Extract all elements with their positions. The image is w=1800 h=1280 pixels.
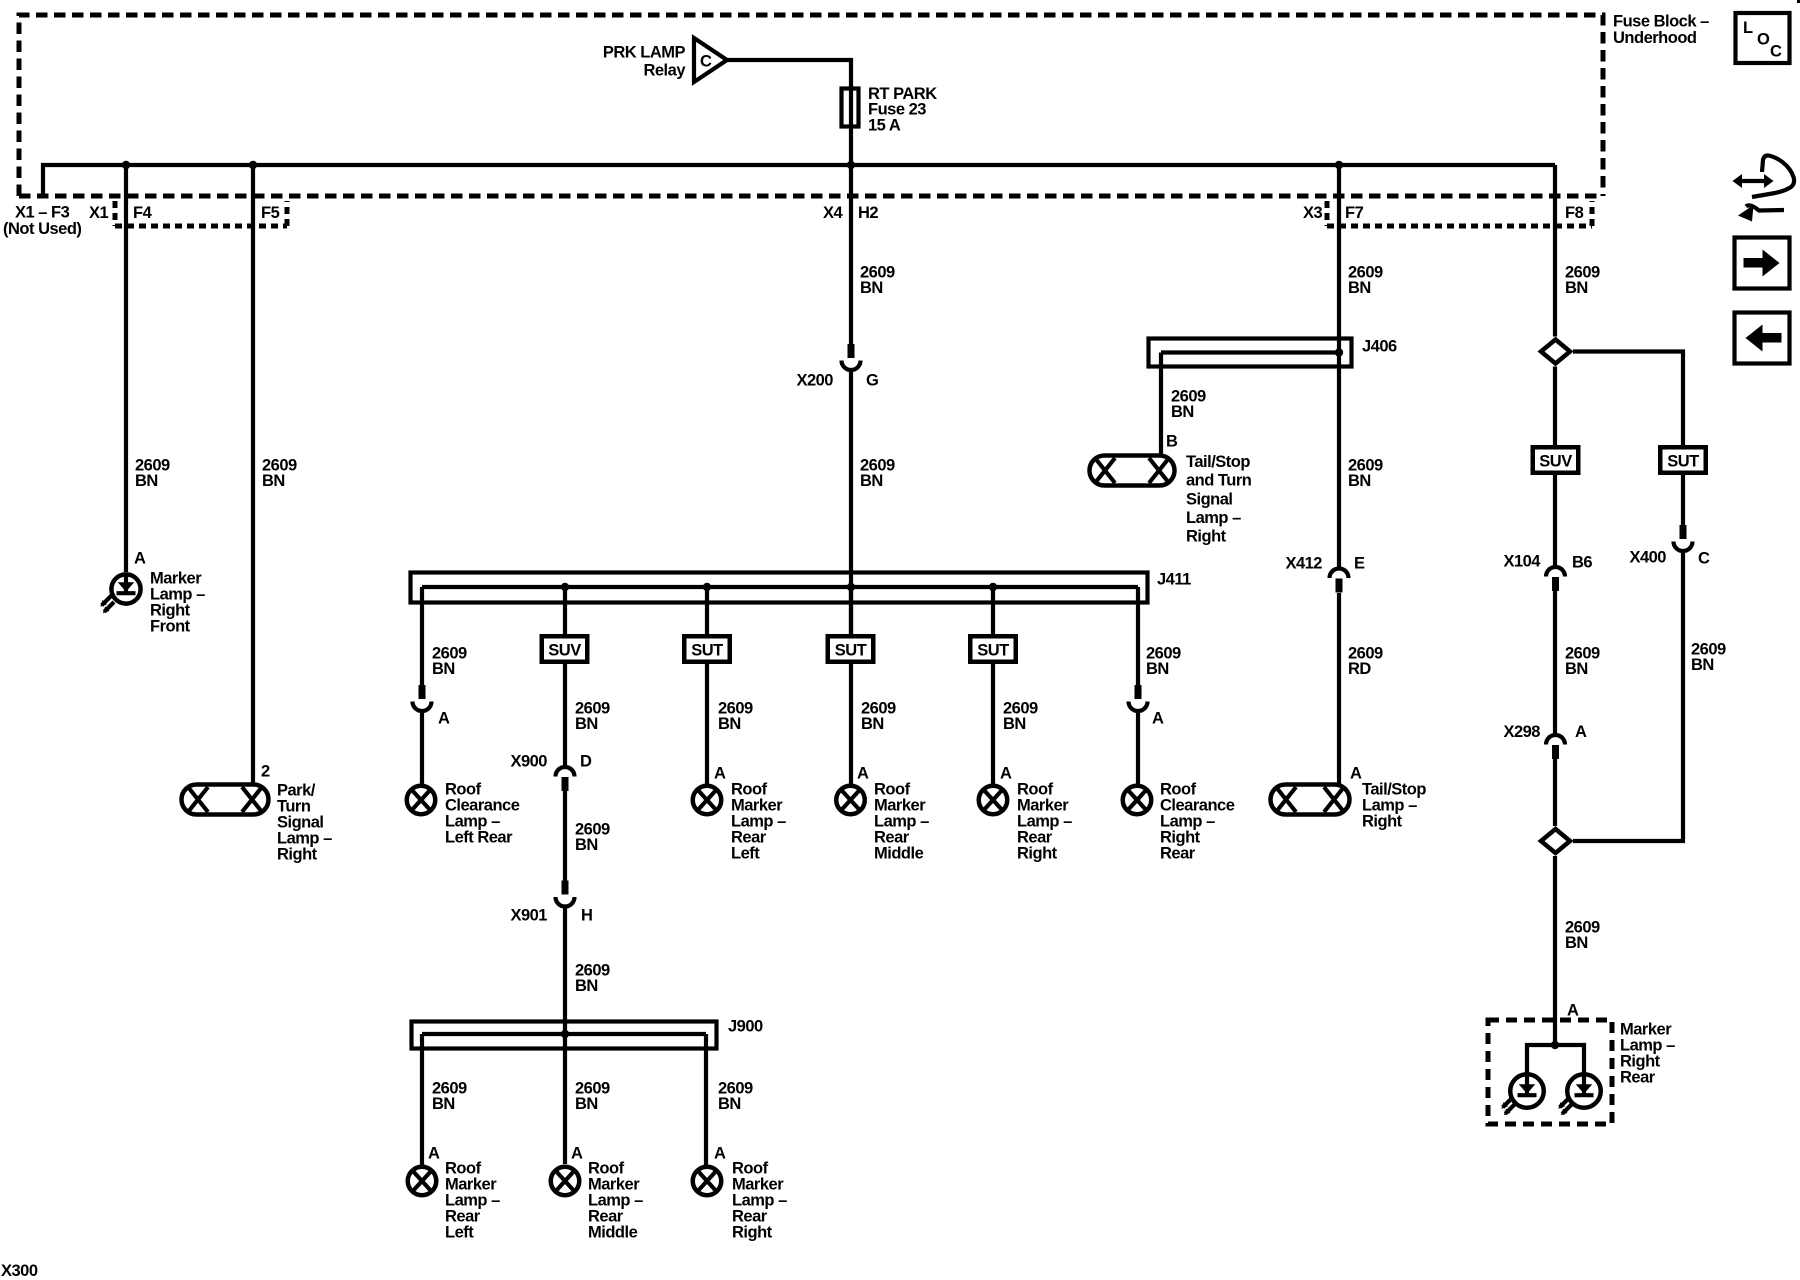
splice pack J900 bbox=[412, 1018, 764, 1049]
label: Roof Clearance Lamp - Right Rear bbox=[1160, 780, 1235, 862]
svg-text:SUV: SUV bbox=[1539, 452, 1572, 470]
node label X3 bbox=[1303, 204, 1323, 222]
wire X104 to X298 bbox=[1553, 591, 1557, 735]
svg-text:BN: BN bbox=[718, 1095, 741, 1113]
svg-text:Right: Right bbox=[732, 1223, 773, 1241]
pin label A (marker lamp right rear) bbox=[1567, 1002, 1579, 1020]
label: Roof Marker Lamp - Rear Right (bottom) bbox=[732, 1159, 787, 1241]
svg-text:J406: J406 bbox=[1362, 337, 1397, 355]
svg-text:BN: BN bbox=[1003, 715, 1026, 733]
connector X298 cavity A bbox=[1503, 723, 1587, 759]
svg-text:Right: Right bbox=[1362, 812, 1403, 830]
svg-text:BN: BN bbox=[860, 472, 883, 490]
svg-text:B: B bbox=[1166, 433, 1178, 451]
svg-text:BN: BN bbox=[575, 715, 598, 733]
wire label 2609 BN (to marker right rear) bbox=[1565, 918, 1600, 952]
wire label 2609 BN (SUT rear left) bbox=[718, 699, 753, 733]
wire relay to fuse bbox=[727, 60, 851, 88]
option box SUV (left) bbox=[542, 636, 588, 662]
wire label 2609 BN (J900 right) bbox=[718, 1079, 753, 1113]
wire J406 tap to tail/stop turn lamp bbox=[1159, 353, 1163, 456]
pin label A (bottom rear left) bbox=[428, 1145, 440, 1163]
svg-text:BN: BN bbox=[135, 472, 158, 490]
fuse block - underhood dashed outline bbox=[19, 15, 1603, 196]
svg-text:SUT: SUT bbox=[691, 641, 723, 659]
svg-text:SUT: SUT bbox=[835, 641, 867, 659]
svg-text:X1: X1 bbox=[89, 204, 109, 222]
wire connector to roof clearance lamp left rear bbox=[420, 712, 424, 784]
svg-text:BN: BN bbox=[1348, 279, 1371, 297]
tail/stop lamp - right bbox=[1271, 785, 1350, 815]
wire label 2609 BN (F5 branch) bbox=[262, 456, 297, 490]
svg-text:BN: BN bbox=[432, 1095, 455, 1113]
wire label 2609 BN (F4 branch) bbox=[135, 456, 170, 490]
svg-text:Middle: Middle bbox=[874, 844, 924, 862]
svg-text:BN: BN bbox=[1691, 656, 1714, 674]
node X1-F3 stub label bbox=[3, 203, 81, 238]
svg-text:A: A bbox=[714, 765, 726, 783]
wire label 2609 BN (J411 left drop) bbox=[432, 644, 467, 678]
svg-text:Left: Left bbox=[445, 1223, 474, 1241]
pin label A (bottom rear middle) bbox=[571, 1145, 583, 1163]
splice pack J411 bbox=[411, 571, 1192, 603]
roof clearance lamp - right rear bbox=[1123, 786, 1152, 815]
svg-text:X4: X4 bbox=[823, 204, 844, 222]
wire X200 to splice pack J411 bbox=[849, 372, 853, 634]
fuse cavity dotted box F4-F5 bbox=[115, 201, 287, 226]
svg-text:C: C bbox=[700, 53, 712, 71]
wire label 2609 BN (F7 upper) bbox=[1348, 263, 1383, 297]
svg-text:BN: BN bbox=[718, 715, 741, 733]
wire label 2609 BN (SUT rear right) bbox=[1003, 699, 1038, 733]
svg-text:X300: X300 bbox=[1, 1262, 38, 1280]
wire split inside marker lamp right rear bbox=[1527, 1041, 1584, 1075]
wire label 2609 BN (below X200) bbox=[860, 456, 895, 490]
svg-text:C: C bbox=[1698, 550, 1710, 568]
svg-text:BN: BN bbox=[1565, 660, 1588, 678]
bus wire from X1 to F8 bbox=[43, 165, 1555, 196]
svg-text:Front: Front bbox=[150, 617, 191, 635]
svg-text:Rear: Rear bbox=[1620, 1068, 1656, 1086]
svg-text:A: A bbox=[714, 1145, 726, 1163]
svg-text:A: A bbox=[438, 709, 450, 727]
fuse RT PARK Fuse 23 15A bbox=[842, 85, 938, 134]
LED marker lamp - right rear (right bulb) bbox=[1558, 1074, 1600, 1115]
wire label 2609 BN (above J900) bbox=[575, 961, 610, 995]
svg-text:X1 – F3: X1 – F3 bbox=[15, 203, 70, 221]
svg-text:A: A bbox=[571, 1145, 583, 1163]
label: Roof Marker Lamp - Rear Middle (bottom) bbox=[588, 1159, 643, 1241]
wire J411 to SUV option box bbox=[563, 587, 567, 634]
splice pack J406 bbox=[1149, 337, 1398, 366]
wire label 2609 BN (H2 upper) bbox=[860, 263, 895, 297]
svg-text:BN: BN bbox=[262, 472, 285, 490]
park/turn signal lamp - right (dual filament) bbox=[182, 785, 269, 815]
svg-text:J411: J411 bbox=[1157, 571, 1191, 589]
pin label A (tail/stop lamp right) bbox=[1350, 765, 1362, 783]
label: Roof Clearance Lamp - Left Rear bbox=[445, 780, 520, 846]
svg-text:A: A bbox=[1152, 709, 1164, 727]
option box SUT (rear middle) bbox=[828, 636, 874, 662]
label: Fuse Block - Underhood bbox=[1613, 12, 1709, 47]
roof marker lamp - rear right bbox=[979, 786, 1008, 815]
wire X901 to splice pack J900 bbox=[563, 908, 567, 1164]
svg-text:G: G bbox=[866, 372, 878, 390]
roof marker lamp - rear left (roof harness) bbox=[408, 1167, 437, 1196]
relay PRK LAMP (triangle with C) bbox=[603, 38, 727, 82]
label: Roof Marker Lamp - Rear Middle bbox=[874, 780, 929, 862]
connector X200 cavity G bbox=[796, 344, 878, 390]
fuse cavity dotted box F7-F8 bbox=[1327, 201, 1592, 226]
label: Roof Marker Lamp - Rear Left bbox=[731, 780, 786, 862]
connector X900 cavity D bbox=[510, 753, 592, 791]
LED marker lamp - right rear (left bulb) bbox=[1501, 1074, 1543, 1115]
svg-text:A: A bbox=[1567, 1002, 1579, 1020]
label: Park/Turn Signal Lamp - Right bbox=[277, 781, 332, 863]
junction on bus at F5 bbox=[249, 161, 257, 169]
node label H2 bbox=[858, 204, 878, 222]
svg-text:H2: H2 bbox=[858, 204, 878, 222]
wire SUV box to X104 bbox=[1553, 475, 1557, 566]
svg-text:Signal: Signal bbox=[1186, 490, 1233, 508]
svg-text:X900: X900 bbox=[510, 753, 547, 771]
splice diamond (upper) bbox=[1541, 340, 1570, 364]
svg-text:PRK LAMP: PRK LAMP bbox=[603, 44, 686, 62]
wire label 2609 BN (SUT rear middle) bbox=[861, 699, 896, 733]
label: Tail/Stop Lamp - Right bbox=[1362, 780, 1426, 830]
svg-text:BN: BN bbox=[432, 660, 455, 678]
wire label 2609 BN (J406 tap) bbox=[1171, 387, 1206, 421]
svg-text:X104: X104 bbox=[1503, 553, 1541, 571]
wire label 2609 BN (J900 middle) bbox=[575, 1079, 610, 1113]
svg-text:F4: F4 bbox=[133, 204, 153, 222]
svg-text:BN: BN bbox=[575, 836, 598, 854]
label: Roof Marker Lamp - Rear Right bbox=[1017, 780, 1072, 862]
wire label 2609 BN (J900 left) bbox=[432, 1079, 467, 1113]
svg-text:Left Rear: Left Rear bbox=[445, 828, 513, 846]
label X300 (page reference) bbox=[1, 1262, 38, 1280]
node label F7 bbox=[1345, 204, 1364, 222]
wire diamond to SUT option box bbox=[1573, 352, 1683, 446]
svg-text:SUT: SUT bbox=[1667, 452, 1699, 470]
wire J411 right drop to connector bbox=[1136, 587, 1140, 685]
roof marker lamp - rear middle bbox=[836, 786, 865, 815]
splice diamond (lower) bbox=[1541, 829, 1570, 853]
pin label A (bottom rear right) bbox=[714, 1145, 726, 1163]
wire F5 to park/turn signal lamp bbox=[251, 165, 255, 784]
svg-text:J900: J900 bbox=[728, 1018, 763, 1036]
wire H2 to connector X200 bbox=[849, 165, 853, 344]
svg-text:X400: X400 bbox=[1629, 549, 1666, 567]
svg-text:D: D bbox=[580, 753, 592, 771]
svg-text:A: A bbox=[857, 765, 869, 783]
connector X400 cavity C bbox=[1629, 525, 1710, 568]
svg-text:X412: X412 bbox=[1285, 555, 1322, 573]
svg-text:Right: Right bbox=[1017, 844, 1058, 862]
wire J411 left drop to connector bbox=[420, 587, 424, 685]
icon box arrow left bbox=[1735, 313, 1790, 364]
junction J411 at SUT drop (rear right) bbox=[989, 583, 997, 591]
svg-text:and Turn: and Turn bbox=[1186, 472, 1252, 490]
svg-text:BN: BN bbox=[861, 715, 884, 733]
wire fuse to bus bbox=[849, 129, 853, 165]
wire F7 through J406 to X412 bbox=[1337, 165, 1341, 568]
svg-text:BN: BN bbox=[860, 279, 883, 297]
svg-text:A: A bbox=[1000, 765, 1012, 783]
label: Tail/Stop and Turn Signal Lamp - Right bbox=[1186, 453, 1252, 546]
svg-text:Fuse Block –: Fuse Block – bbox=[1613, 12, 1709, 30]
svg-text:A: A bbox=[1575, 723, 1587, 741]
svg-text:X901: X901 bbox=[510, 907, 547, 925]
svg-text:C: C bbox=[1770, 43, 1782, 61]
option box SUT (rear left) bbox=[684, 636, 730, 662]
wire X400 to splice diamond lower bbox=[1573, 552, 1683, 841]
wire X900 to X901 bbox=[563, 791, 567, 881]
svg-text:Tail/Stop: Tail/Stop bbox=[1186, 453, 1250, 471]
icon twisted-route with arrows bbox=[1733, 155, 1795, 221]
svg-text:Right: Right bbox=[277, 845, 318, 863]
wire diamond to SUV option box bbox=[1553, 367, 1557, 446]
wire label 2609 BN (F8 upper) bbox=[1565, 263, 1600, 297]
wire F8 to splice diamond bbox=[1553, 165, 1557, 337]
node label F5 bbox=[261, 204, 280, 222]
junction J411 at feed/SUT drop (rear middle) bbox=[847, 583, 855, 591]
label: Roof Marker Lamp - Rear Left (bottom) bbox=[445, 1159, 500, 1241]
icon box arrow right bbox=[1735, 238, 1790, 289]
connector X412 cavity E bbox=[1285, 555, 1365, 593]
svg-text:L: L bbox=[1743, 19, 1753, 37]
LED marker lamp - right front bbox=[100, 574, 140, 613]
svg-text:B6: B6 bbox=[1572, 554, 1592, 572]
svg-text:(Not Used): (Not Used) bbox=[3, 220, 81, 238]
svg-text:Relay: Relay bbox=[643, 62, 686, 80]
svg-text:BN: BN bbox=[575, 977, 598, 995]
junction J411 at SUT drop (rear left) bbox=[703, 583, 711, 591]
node label X4 bbox=[823, 204, 844, 222]
svg-text:Rear: Rear bbox=[1160, 844, 1196, 862]
svg-text:A: A bbox=[134, 550, 146, 568]
icon box LOC bbox=[1736, 13, 1790, 63]
svg-text:Underhood: Underhood bbox=[1613, 29, 1697, 47]
svg-text:Left: Left bbox=[731, 844, 760, 862]
svg-text:SUT: SUT bbox=[977, 641, 1009, 659]
inline connector cavity A (left rear clearance) bbox=[413, 685, 451, 727]
svg-text:BN: BN bbox=[1348, 472, 1371, 490]
wire label 2609 BN (SUV right branch) bbox=[1565, 644, 1600, 678]
svg-text:F8: F8 bbox=[1565, 204, 1584, 222]
wire SUT box to roof marker lamp rear right bbox=[991, 664, 995, 784]
svg-text:O: O bbox=[1757, 31, 1770, 49]
wire J411 to SUT option box (rear middle) bbox=[849, 587, 853, 634]
svg-text:X298: X298 bbox=[1503, 723, 1540, 741]
junction on bus at F7 bbox=[1335, 161, 1343, 169]
wire label 2609 BN (F7 below J406) bbox=[1348, 456, 1383, 490]
wire X298 to splice diamond lower bbox=[1553, 759, 1557, 826]
wire X412 to tail/stop lamp right bbox=[1337, 593, 1341, 784]
roof clearance lamp - left rear bbox=[407, 786, 436, 815]
roof marker lamp - rear left bbox=[693, 786, 722, 815]
junction J900 at middle drop bbox=[561, 1030, 569, 1038]
wire SUT box to roof marker lamp rear left bbox=[705, 664, 709, 784]
wire label 2609 RD bbox=[1348, 644, 1383, 678]
wire J411 to SUT option box (rear right) bbox=[991, 587, 995, 634]
pin label A (roof marker rear right) bbox=[1000, 765, 1012, 783]
junction J411 at SUV drop bbox=[561, 583, 569, 591]
wire F4 to marker lamp right front bbox=[124, 165, 128, 572]
svg-text:Lamp –: Lamp – bbox=[1186, 509, 1241, 527]
svg-text:BN: BN bbox=[575, 1095, 598, 1113]
svg-text:BN: BN bbox=[1171, 403, 1194, 421]
pin label 2 (park/turn lamp) bbox=[261, 763, 270, 781]
svg-text:A: A bbox=[428, 1145, 440, 1163]
svg-text:2: 2 bbox=[261, 763, 270, 781]
roof marker lamp - rear middle (roof harness) bbox=[551, 1167, 580, 1196]
wire J900 left drop to roof marker rear left bbox=[420, 1034, 424, 1165]
svg-text:F5: F5 bbox=[261, 204, 280, 222]
page corner tick bbox=[1797, 0, 1800, 3]
node label F4 bbox=[133, 204, 153, 222]
marker lamp - right rear dashed enclosure bbox=[1488, 1020, 1612, 1124]
tail/stop and turn signal lamp - right bbox=[1090, 456, 1175, 486]
svg-text:BN: BN bbox=[1565, 279, 1588, 297]
label: Marker Lamp - Right Front bbox=[150, 569, 205, 635]
wire SUV box to connector X900 bbox=[563, 664, 567, 766]
option box SUT (rear right) bbox=[970, 636, 1016, 662]
option box SUT (right branch) bbox=[1660, 447, 1706, 473]
svg-text:Middle: Middle bbox=[588, 1223, 638, 1241]
node label F8 bbox=[1565, 204, 1584, 222]
wire label 2609 BN (SUT right branch) bbox=[1691, 640, 1726, 674]
node label X1 bbox=[89, 204, 109, 222]
svg-text:SUV: SUV bbox=[548, 641, 581, 659]
svg-text:BN: BN bbox=[1565, 934, 1588, 952]
wire label 2609 BN (J411 right drop) bbox=[1146, 644, 1181, 678]
option box SUV (right branch) bbox=[1533, 447, 1579, 473]
svg-text:H: H bbox=[581, 907, 592, 925]
svg-text:A: A bbox=[1350, 765, 1362, 783]
svg-text:X200: X200 bbox=[796, 372, 833, 390]
inline connector cavity A (right rear clearance) bbox=[1129, 685, 1165, 727]
junction on bus at H2 bbox=[847, 161, 855, 169]
svg-text:F7: F7 bbox=[1345, 204, 1364, 222]
wire J900 right drop to roof marker rear right bbox=[704, 1034, 708, 1165]
svg-text:Right: Right bbox=[1186, 528, 1227, 546]
wire label 2609 BN (between X900 X901) bbox=[575, 820, 610, 854]
connector X901 cavity H bbox=[510, 881, 592, 925]
wire label 2609 BN (SUV drop) bbox=[575, 699, 610, 733]
svg-text:E: E bbox=[1354, 555, 1365, 573]
pin label B (tail/stop turn lamp) bbox=[1166, 433, 1178, 451]
svg-text:RD: RD bbox=[1348, 660, 1371, 678]
wire connector to roof clearance lamp right rear bbox=[1136, 712, 1140, 784]
pin label A (roof marker rear left) bbox=[714, 765, 726, 783]
pin label A (marker lamp right front) bbox=[134, 550, 146, 568]
wire SUT box to roof marker lamp rear middle bbox=[849, 664, 853, 784]
wire SUT box to X400 bbox=[1681, 475, 1685, 525]
pin label A (roof marker rear middle) bbox=[857, 765, 869, 783]
svg-text:X3: X3 bbox=[1303, 204, 1323, 222]
wire diamond to marker lamp right rear bbox=[1553, 856, 1557, 1045]
svg-text:BN: BN bbox=[1146, 660, 1169, 678]
wire J411 to SUT option box (rear left) bbox=[705, 587, 709, 634]
svg-text:15 A: 15 A bbox=[868, 116, 901, 134]
label: Marker Lamp - Right Rear bbox=[1620, 1020, 1675, 1086]
connector X104 cavity B6 bbox=[1503, 553, 1592, 591]
junction on bus at F4 bbox=[122, 161, 130, 169]
roof marker lamp - rear right (roof harness) bbox=[693, 1167, 722, 1196]
